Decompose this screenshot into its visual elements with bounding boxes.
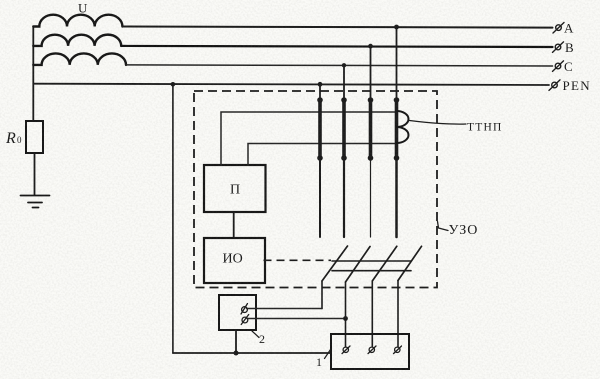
node: PEN tap for riser xyxy=(171,82,176,87)
node: conductor 4 tap on A xyxy=(394,25,399,30)
wire: box2 bottom stub xyxy=(235,330,237,353)
wire phase C xyxy=(126,65,553,66)
enclosure UZO dashed box xyxy=(194,91,437,288)
svg-text:U: U xyxy=(78,1,88,16)
wire PEN xyxy=(33,84,549,85)
breaker linkage bar lower xyxy=(332,270,411,272)
node: junction box2/bottom wire xyxy=(234,351,239,356)
node: junction blade2/test xyxy=(343,316,348,321)
wire П to ИО xyxy=(233,212,235,238)
wire: blade2 stub to terminal 1 xyxy=(345,282,347,347)
load terminal 2 xyxy=(368,346,376,354)
test contact lower xyxy=(241,315,249,325)
breaker blade 3 xyxy=(372,246,397,281)
node: conductor 4 dots xyxy=(394,97,400,103)
wire phase A xyxy=(122,27,552,28)
label 1 leader xyxy=(325,348,332,359)
resistor R0 xyxy=(26,121,43,153)
actuator ИО box xyxy=(204,238,265,283)
conductor 3 (phase B pole) xyxy=(370,46,372,237)
svg-text:C: C xyxy=(564,59,573,74)
wire phase B xyxy=(121,46,552,47)
wire: transformer neutral vertical xyxy=(32,27,34,122)
load terminal 1 xyxy=(342,346,350,354)
wire: test lower to conductor 2 xyxy=(247,318,346,320)
label УЗО leader tick xyxy=(438,222,449,231)
wire resistor to ground xyxy=(34,153,36,195)
svg-text:УЗО: УЗО xyxy=(449,223,479,238)
node: conductor 2 tap on C xyxy=(342,63,346,67)
winding U phase B xyxy=(33,35,121,46)
node: conductor 3 dots xyxy=(368,97,374,103)
terminal A xyxy=(553,23,564,34)
breaker blade 4 xyxy=(398,246,422,280)
svg-text:1: 1 xyxy=(316,355,322,369)
terminal C xyxy=(553,61,564,72)
load terminal box 1 xyxy=(331,334,409,369)
node: conductor 1 tap on PEN xyxy=(318,82,323,87)
wire: test upper to blade1 xyxy=(247,308,323,310)
svg-text:0: 0 xyxy=(17,135,22,145)
load terminal 3 xyxy=(394,346,402,354)
svg-text:П: П xyxy=(230,183,240,198)
test contact upper xyxy=(241,304,248,315)
wire П to secondary top xyxy=(221,112,397,165)
ground xyxy=(21,196,50,208)
winding U phase C xyxy=(33,53,126,64)
winding U phase A xyxy=(33,15,122,27)
svg-text:A: A xyxy=(564,21,574,36)
wire: blade4 stub to terminal 3 xyxy=(397,281,399,347)
transformer ТТНП secondary winding xyxy=(397,111,409,143)
linkage from ИО (dash-dot) xyxy=(264,259,332,261)
conductor 2 (phase C pole) xyxy=(343,65,345,237)
wire: blade1 stub down xyxy=(321,281,323,309)
amplifier П box xyxy=(204,165,266,212)
conductor 1 (N pole) xyxy=(319,84,321,237)
leader ТТНП xyxy=(410,121,467,125)
terminal PEN xyxy=(549,80,560,91)
breaker blade 1 (N) xyxy=(322,246,348,281)
breaker linkage bar upper xyxy=(332,260,411,262)
svg-text:ИО: ИО xyxy=(223,252,243,267)
terminal B xyxy=(553,42,564,53)
breaker blade 2 xyxy=(346,247,371,283)
node: conductor 1 dots xyxy=(317,97,323,103)
svg-text:2: 2 xyxy=(259,332,265,346)
wire П to secondary bottom xyxy=(248,144,397,166)
svg-text:B: B xyxy=(565,40,574,55)
svg-text:R: R xyxy=(5,130,16,147)
label 2 leader xyxy=(252,331,259,338)
svg-text:ТТНП: ТТНП xyxy=(467,122,502,134)
test box 2 xyxy=(219,295,256,330)
conductor 4 (phase A pole) xyxy=(396,27,398,237)
node: conductor 3 tap on B xyxy=(368,44,373,49)
svg-text:PEN: PEN xyxy=(563,78,591,93)
wire: bottom horizontal xyxy=(173,352,331,354)
wire: PEN riser left tall xyxy=(172,84,174,353)
node: conductor 2 dots xyxy=(341,97,347,103)
wire: blade3 stub to terminal 2 xyxy=(371,281,373,347)
